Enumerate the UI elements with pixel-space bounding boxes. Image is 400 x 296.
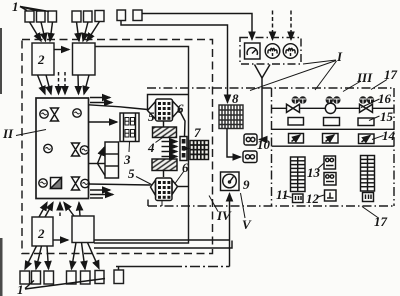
svg-text:3: 3 (123, 152, 131, 167)
svg-text:II: II (2, 126, 14, 141)
svg-text:11: 11 (276, 187, 288, 202)
svg-text:6: 6 (182, 160, 189, 175)
svg-text:10: 10 (257, 137, 271, 152)
svg-text:6: 6 (177, 101, 184, 116)
svg-text:III: III (356, 70, 373, 85)
svg-text:1: 1 (17, 282, 24, 296)
svg-text:4: 4 (147, 140, 155, 155)
svg-text:V: V (242, 217, 252, 232)
svg-text:I: I (336, 49, 343, 64)
svg-text:7: 7 (194, 125, 201, 140)
svg-text:17: 17 (384, 67, 398, 82)
svg-text:2: 2 (37, 226, 45, 241)
svg-text:IV: IV (216, 208, 232, 223)
svg-text:16: 16 (378, 91, 392, 106)
svg-text:13: 13 (307, 165, 321, 180)
svg-text:8: 8 (232, 91, 239, 106)
svg-text:5: 5 (148, 109, 155, 124)
svg-text:15: 15 (380, 109, 394, 124)
svg-text:17: 17 (374, 214, 388, 229)
svg-text:2: 2 (37, 52, 45, 67)
svg-text:12: 12 (306, 191, 320, 206)
svg-text:1: 1 (12, 0, 19, 14)
svg-text:9: 9 (243, 177, 250, 192)
svg-text:14: 14 (382, 128, 396, 143)
svg-text:5: 5 (128, 166, 135, 181)
